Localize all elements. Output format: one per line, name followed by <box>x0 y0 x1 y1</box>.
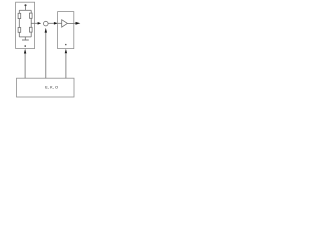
bridge sensor box B1 <box>16 2 35 48</box>
influence bus box E,K,O <box>17 78 75 97</box>
arrowhead into bridge box <box>24 49 26 54</box>
wire bridge mid-tap to output <box>31 22 38 24</box>
arrowhead into amplifier box bottom <box>65 49 67 54</box>
arrowhead into summing node <box>38 22 42 25</box>
arrowhead output <box>76 22 81 25</box>
wire bottom rail <box>19 36 31 38</box>
wire right middle <box>30 18 32 27</box>
wire influence to amplifier box <box>65 53 67 78</box>
resistor R4 <box>30 27 33 32</box>
wire input to triangle <box>58 22 62 24</box>
wire top rail <box>19 9 31 11</box>
wire left middle <box>18 19 20 28</box>
label inside bridge box <box>25 45 26 47</box>
svg-text:E, K, O: E, K, O <box>45 86 58 90</box>
wire output <box>74 22 76 24</box>
wire right bottom drop <box>30 32 32 37</box>
wire ground stub <box>24 37 26 40</box>
arrowhead into summing node bottom <box>45 28 47 33</box>
arrowhead into amplifier box <box>54 22 58 25</box>
wire left bottom drop <box>18 32 20 37</box>
op-amp U1 triangle <box>62 20 68 27</box>
ground <box>22 39 29 41</box>
wire triangle to box edge <box>67 22 73 24</box>
amplifier box B2 <box>58 12 74 49</box>
wire left drop <box>18 10 20 13</box>
wire summing node to amplifier <box>48 22 54 24</box>
supply terminal circle <box>24 4 26 6</box>
wire terminal to top rail <box>25 6 27 10</box>
resistor R3 <box>18 28 21 33</box>
resistor R2 <box>30 13 33 18</box>
wire right drop <box>30 10 32 13</box>
resistor R1 <box>18 13 21 18</box>
wire influence to summing node <box>45 32 47 78</box>
wire influence to bridge box <box>24 53 26 78</box>
summing node circle <box>44 21 49 26</box>
label inside amplifier box <box>65 44 66 45</box>
